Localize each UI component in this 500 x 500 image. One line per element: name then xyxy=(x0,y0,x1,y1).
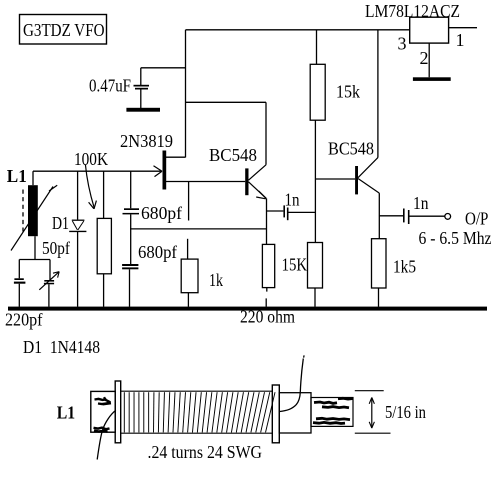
Q3 emitter diagonal xyxy=(358,179,379,194)
wire 1k bottom lead xyxy=(187,293,189,307)
svg-text:1k5: 1k5 xyxy=(393,257,416,277)
wire 1n first to divider xyxy=(289,211,316,213)
svg-text:100K: 100K xyxy=(74,149,108,169)
wire Q2 emitter vertical xyxy=(266,199,268,245)
wire 1n second to output xyxy=(410,215,445,217)
trimmer capacitor C 50pf xyxy=(44,280,54,284)
wire Q3 base xyxy=(315,178,355,180)
label 1k xyxy=(209,270,223,290)
resistor R 15k xyxy=(310,64,325,120)
label 680pf lower xyxy=(138,242,177,262)
capacitor C 220pf xyxy=(14,278,26,283)
resistor R 1k5 xyxy=(372,239,387,288)
100K pointer arrow xyxy=(85,165,96,209)
Q2 emitter arrowhead xyxy=(256,191,266,199)
wire 1k5 bottom lead xyxy=(378,288,380,307)
wire 220pf top lead xyxy=(18,260,20,279)
Q3 collector diagonal xyxy=(358,158,378,178)
wire Q3 emitter to 1n xyxy=(379,215,403,217)
label LM78L12ACZ xyxy=(365,1,460,21)
wire Q2 emitter to 1n xyxy=(267,210,284,212)
label 680pf upper xyxy=(141,203,182,223)
wire top +12V rail xyxy=(186,29,411,31)
wire regulator output pin1 xyxy=(449,27,477,29)
label BC548 right xyxy=(328,138,374,158)
transistor Q2 BC548 bar xyxy=(245,168,248,195)
L1 adjust arrow xyxy=(11,185,57,250)
svg-text:220pf: 220pf xyxy=(5,310,43,330)
resistor R 100K xyxy=(97,218,111,273)
wire regulator pin2 xyxy=(428,43,430,77)
coil former right end xyxy=(279,393,311,433)
wire L1 top lead xyxy=(32,171,34,185)
label 1n first xyxy=(285,189,300,209)
label O/P xyxy=(465,209,488,229)
svg-text:1n: 1n xyxy=(285,189,300,209)
dimension arrow xyxy=(369,398,374,429)
svg-text:0.47uF: 0.47uF xyxy=(89,76,131,96)
label 220pf xyxy=(5,310,43,330)
ground regulator xyxy=(413,77,451,81)
svg-text:1k: 1k xyxy=(209,270,223,290)
dimension line bottom xyxy=(355,432,391,434)
label 1n second xyxy=(413,193,429,213)
coil slug scribble upper xyxy=(314,398,353,407)
wire junction to emitter xyxy=(130,228,267,230)
capacitor C 1n second xyxy=(403,209,410,225)
wire tank junction xyxy=(19,259,50,261)
wire 100K top lead xyxy=(103,171,105,218)
wire 220pf bottom lead xyxy=(18,284,20,307)
svg-text:680pf: 680pf xyxy=(141,203,182,223)
svg-text:L1: L1 xyxy=(57,403,75,423)
svg-text:680pf: 680pf xyxy=(138,242,177,262)
svg-text:1: 1 xyxy=(456,30,465,50)
wire Q1 source rail xyxy=(166,181,245,183)
L1 dashed line xyxy=(22,190,24,232)
coil left scribble upper xyxy=(95,397,112,404)
svg-text:BC548: BC548 xyxy=(328,138,374,158)
wire JFET drain riser xyxy=(185,30,187,158)
resistor R 15K xyxy=(308,243,323,289)
Q2 collector diagonal xyxy=(249,165,267,180)
svg-text:3: 3 xyxy=(398,33,407,53)
label 5/16 in xyxy=(385,402,426,422)
svg-text:15k: 15k xyxy=(336,82,360,102)
wire L1 bottom lead xyxy=(34,236,36,259)
coil winding 24 turns xyxy=(121,391,275,433)
inductor L1 core xyxy=(28,185,38,236)
wire 50pf bottom lead xyxy=(48,284,50,307)
Q2 emitter diagonal xyxy=(249,182,267,199)
wire Q3 emitter vertical xyxy=(378,193,380,239)
label BC548 left xyxy=(209,145,257,165)
wire 15k top lead xyxy=(316,30,318,65)
wire source stub xyxy=(188,182,190,221)
coil left scribble lower xyxy=(94,428,110,432)
pin 1 label xyxy=(456,30,465,50)
label .24 turns 24 SWG xyxy=(148,442,263,462)
svg-text:.24 turns 24 SWG: .24 turns 24 SWG xyxy=(148,442,263,462)
wire 15k bottom / divider line xyxy=(314,120,316,242)
wire 680pf chain top lead xyxy=(130,171,132,208)
label 100K xyxy=(74,149,108,169)
svg-text:D1 1N4148: D1 1N4148 xyxy=(23,337,100,357)
label 15k xyxy=(336,82,360,102)
label D1 xyxy=(52,213,69,233)
wire 0.47uF bottom lead xyxy=(140,90,142,109)
wire 100K bottom lead xyxy=(103,274,105,307)
resistor R 220 ohm xyxy=(262,244,274,287)
label 0.47uF xyxy=(89,76,131,96)
svg-text:BC548: BC548 xyxy=(209,145,257,165)
title box G3TDZ VFO xyxy=(20,15,107,45)
capacitor C 680pf lower xyxy=(122,264,138,269)
label L1 xyxy=(7,166,27,186)
wire 50pf top lead xyxy=(49,260,51,281)
pin 2 label xyxy=(420,48,429,68)
svg-text:50pf: 50pf xyxy=(42,238,70,258)
label 15K xyxy=(282,255,307,275)
svg-text:15K: 15K xyxy=(282,255,307,275)
wire 1k top lead xyxy=(187,239,189,259)
coil former left end xyxy=(91,391,115,432)
svg-text:LM78L12ACZ: LM78L12ACZ xyxy=(365,1,460,21)
label 6 - 6.5 Mhz xyxy=(419,228,492,248)
label 2N3819 xyxy=(120,131,173,151)
coil wire left lead xyxy=(97,410,116,459)
label 1k5 xyxy=(393,257,416,277)
svg-text:G3TDZ VFO: G3TDZ VFO xyxy=(23,20,105,40)
diode D1 xyxy=(69,220,86,231)
wire between 680pf caps xyxy=(130,214,132,264)
label 220 ohm xyxy=(240,307,295,327)
wire Q1 gate rail xyxy=(33,170,162,172)
coil slug xyxy=(311,398,353,427)
svg-text:6 - 6.5 Mhz: 6 - 6.5 Mhz xyxy=(419,228,492,248)
coil flange right xyxy=(272,385,279,443)
coil slug scribble lower xyxy=(313,418,350,423)
ground rail xyxy=(8,307,487,311)
voltage regulator LM78L12ACZ xyxy=(410,17,449,43)
svg-text:2: 2 xyxy=(420,48,429,68)
wire Q1 drain lead xyxy=(166,156,186,158)
ground 0.47uF xyxy=(126,108,160,112)
svg-text:2N3819: 2N3819 xyxy=(120,131,173,151)
wire 680pf chain bottom lead xyxy=(129,269,131,307)
wire 0.47uF top lead xyxy=(140,68,142,85)
resistor R 1k xyxy=(181,259,198,293)
label D1 1N4148 xyxy=(23,337,100,357)
capacitor C 680pf upper xyxy=(123,208,140,214)
wire y102 to Q2 collector xyxy=(186,101,267,103)
wire 0.47uF branch xyxy=(141,67,186,69)
coil flange left xyxy=(115,381,121,443)
pin 3 label xyxy=(398,33,407,53)
svg-text:L1: L1 xyxy=(7,166,27,186)
output terminal circle xyxy=(445,214,451,220)
coil wire right lead xyxy=(280,355,304,411)
wire Q2 collector riser xyxy=(265,102,267,165)
dimension line top xyxy=(355,390,384,392)
wire D1 bottom lead xyxy=(77,231,79,306)
svg-text:D1: D1 xyxy=(52,213,69,233)
50pf trimmer arrow xyxy=(39,272,59,290)
svg-text:5/16 in: 5/16 in xyxy=(385,402,426,422)
wire 220 ohm bottom lead xyxy=(265,288,268,307)
wire Q3 collector riser xyxy=(377,30,379,158)
capacitor C 1n first xyxy=(283,205,288,220)
Q1 gate arrowhead xyxy=(154,166,163,177)
wire D1 top lead xyxy=(77,171,79,219)
transistor Q1 2N3819 bar xyxy=(163,151,167,190)
svg-text:O/P: O/P xyxy=(465,209,488,229)
label 50pf xyxy=(42,238,70,258)
svg-text:1n: 1n xyxy=(413,193,429,213)
capacitor C 0.47uF xyxy=(134,85,150,90)
wire 15K bottom lead xyxy=(314,288,316,307)
transistor Q3 BC548 bar xyxy=(355,166,358,194)
label L1 coil xyxy=(57,403,75,423)
